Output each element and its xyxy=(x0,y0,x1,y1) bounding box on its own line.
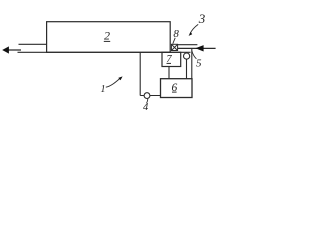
wire: right duct lower line / inlet arrow shaft xyxy=(178,47,216,49)
left outlet arrow shaft xyxy=(4,49,21,51)
wire: from inlet duct down to box 6 xyxy=(191,48,193,78)
controller box 7 xyxy=(162,52,181,66)
label 7 underline xyxy=(167,62,172,64)
wire: right duct upper line xyxy=(178,44,198,46)
leader from 4 to sensor xyxy=(147,99,148,103)
control unit box 6 xyxy=(161,79,193,98)
leader from 5 to sensor xyxy=(192,51,197,59)
label 2 underline xyxy=(104,40,110,42)
leader arrow from 3 to inlet duct xyxy=(190,24,198,33)
fan/damper box 8 (crossed square) xyxy=(171,44,177,50)
leader arrow from 1 pointing to system xyxy=(106,78,120,87)
wire: from sensor 5 down to box 6 xyxy=(186,60,188,79)
svg-text:1: 1 xyxy=(101,84,106,95)
wire: vertical line from long line down xyxy=(139,52,141,95)
heat exchanger box 2 xyxy=(47,22,171,53)
sensor circle 5 xyxy=(184,53,190,59)
label 6 underline xyxy=(172,91,177,93)
wire: horizontal to circle 4 and box 6 xyxy=(140,95,160,97)
left outlet arrowhead xyxy=(2,46,9,53)
wire: from box 7 down to box 6 xyxy=(168,67,170,79)
wire: upper left duct line xyxy=(19,43,47,45)
sensor circle 4 xyxy=(144,93,150,99)
svg-text:2: 2 xyxy=(104,28,110,42)
wire: long horizontal line (bottom duct line) xyxy=(18,51,191,53)
leader from 8 to crossed box xyxy=(173,38,175,44)
svg-text:8: 8 xyxy=(173,28,179,40)
right inlet arrowhead xyxy=(195,45,203,51)
svg-text:4: 4 xyxy=(143,102,149,113)
svg-text:5: 5 xyxy=(196,58,202,70)
svg-text:3: 3 xyxy=(198,11,206,26)
